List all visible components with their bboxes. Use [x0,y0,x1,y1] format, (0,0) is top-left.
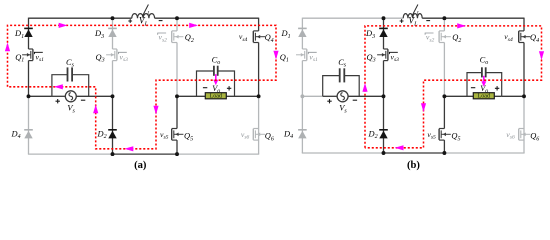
wire: Q5 column lower (b) [443,96,445,128]
label VL + - (a) [128,19,132,23]
transistor Q6 (a) [253,128,258,130]
diode D3 (b) [379,27,388,29]
transistor Q4 (b) [519,30,524,32]
transistor Q3 (a) [113,48,117,50]
magenta flow arrow (b) [457,23,466,28]
diode D4 (b) [298,129,307,131]
node: bottom junctions (b) [382,151,386,155]
wire: right column upper (Q4) (b) [523,18,525,31]
node: mid junctions (b) [300,94,304,98]
AC source Vs (a) [65,91,76,102]
AC source Vs (b) [337,91,348,102]
wire: left column lower (through D4) (a) [28,96,30,154]
magenta flow arrow (b) [395,145,404,150]
wire: Q2 column upper (a) [176,18,178,31]
wire: right column lower (Q6) (b) [523,96,525,153]
label vs3 (a) [118,52,126,54]
capacitor Cs (b) [323,76,340,97]
svg-text:L: L [146,10,150,16]
wire: mid column upper (through D3,Q3) (a) [112,18,114,49]
wire: top rail right section (b) [422,17,524,19]
magenta flow arrow (b) [421,103,426,112]
node: mid junctions (a) [27,94,31,98]
magenta flow arrow (a) [93,105,98,114]
wire: right column lower (Q6) (a) [258,96,260,154]
magenta flow arrow (a) [59,23,68,28]
transistor Q1 (b) [302,48,306,50]
inductor L (a) [132,14,155,19]
wire: Q2 column upper (b) [443,18,445,31]
label vs2 (a) [158,33,166,35]
transistor Q4 (a) [253,30,258,32]
diode D1 (a) [24,27,33,29]
wire: right column upper (Q4) (a) [258,18,260,31]
wire: mid column lower (through D2) (b) [383,96,385,153]
wire: output branch (a) [177,95,197,97]
label -Vo+ (a) [203,87,207,89]
label vs1 (a) [34,52,42,54]
transistor Q2 (b) [439,30,444,32]
diode D3 (a) [108,27,117,29]
wire: top rail left section (b) [302,17,403,19]
svg-text:L: L [416,10,420,16]
wire: left column upper (a) [28,18,30,49]
label Vs + - (a) [56,99,60,103]
diode D1 (b) [298,27,307,29]
node: bottom junctions (a) [111,152,115,156]
label Vs + - (b) [327,99,331,103]
red dashed current loop (b) [365,26,542,148]
label iL current (a) [142,5,148,17]
transistor Q3 (b) [384,48,388,50]
label -Vo+ (b) [471,87,475,89]
red dashed current loop (a) [8,25,277,148]
wire: top rail left section (a) [29,17,132,19]
magenta flow arrow (a) [54,84,63,89]
load box (b) [473,93,494,99]
transistor Q6 (b) [519,128,524,130]
wire: source branch (b) [302,95,322,97]
magenta flow arrow (a) [273,51,278,60]
wire: mid column lower (through D2) (a) [112,96,114,154]
magenta flow arrow (a) [189,23,198,28]
transistor Q2 (a) [172,30,177,32]
label VL + - (b) [400,19,404,23]
arrow Vo (magenta) (b) [483,76,485,83]
label vs1 (b) [308,52,316,54]
arrow Vo (magenta) (a) [215,74,217,81]
svg-text:Load: Load [478,94,491,100]
transistor Q1 (a) [29,48,33,50]
label iL current (b) [412,5,418,17]
transistor Q5 (a) [172,128,177,130]
svg-text:(b): (b) [407,160,420,171]
wire: bottom rail (a) [28,153,113,155]
inductor L (b) [403,14,422,19]
magenta flow arrow (b) [362,83,367,92]
magenta flow arrow (a) [153,106,158,115]
label vs2 (b) [425,33,433,35]
magenta flow arrow (a) [5,43,10,52]
wire: source branch (a) [29,95,52,97]
wire: left column lower (through D4) (b) [301,96,303,153]
svg-text:(a): (a) [134,160,147,171]
wire: mid column upper (through D3,Q3) (b) [383,18,385,49]
wire: Q5 column lower (a) [176,96,178,128]
load box (a) [205,93,226,99]
node: top junctions (a) [111,16,115,20]
magenta flow arrow (b) [539,51,544,60]
wire: output branch (b) [444,95,467,97]
wire: bottom rail (b) [302,152,384,154]
diode D2 (b) [379,129,388,131]
capacitor Co (b) [467,73,482,97]
capacitor Cs (a) [52,75,68,97]
transistor Q5 (b) [439,128,444,130]
magenta flow arrow (a) [125,146,134,151]
wire: left column upper (b) [301,18,303,49]
wire: top rail right section (a) [155,17,259,19]
svg-text:Load: Load [210,94,223,100]
capacitor Co (a) [197,71,214,96]
diode D2 (a) [108,129,117,131]
node: top junctions (b) [382,16,386,20]
diode D4 (a) [24,129,33,131]
label vs3 (b) [389,52,397,54]
